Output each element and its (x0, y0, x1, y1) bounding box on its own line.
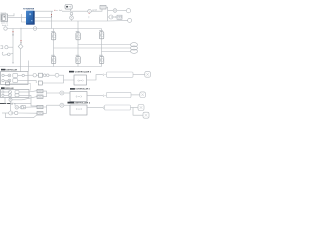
sensor T1 (circle on DC bus) (33, 27, 37, 31)
outlet O1 (circle top-right) (126, 9, 130, 13)
vertical riser x31 (30, 95, 32, 103)
switch S2 (left mid) (1, 46, 14, 49)
wire S5 to R1 (64, 92, 70, 94)
controller A row1 components (2, 73, 28, 77)
wire controller C out (87, 75, 103, 80)
vertical feeder C (x28.5) (28, 61, 30, 72)
filter FL2 (small box row2) (38, 81, 42, 85)
inverter module U1 (blue block) (26, 11, 35, 25)
wire U1 output top (AC line) (35, 10, 54, 12)
wire branch top to fuse F1 (108, 10, 114, 12)
heater H2 (long box row1) (107, 92, 132, 97)
svg-text:BMW CONTROLLER 1: BMW CONTROLLER 1 (70, 89, 91, 91)
motor tap W2 (54, 47, 131, 49)
label KM6 (99, 55, 103, 56)
meter M1 (terminal box) (100, 6, 106, 10)
wire J1 pin2 to U1 (8, 17, 27, 19)
return loop bottom (6, 113, 38, 118)
lamp L1 (circle on AC line) (88, 9, 92, 13)
label KM4 (51, 55, 55, 56)
svg-text:BMW CONTROLLER: BMW CONTROLLER (1, 69, 17, 71)
wire box B row2 to TB2 (29, 94, 31, 96)
vertical drop from AC line (51, 11, 53, 28)
indicator X3 (crossed square) (138, 105, 144, 111)
dark link bar (bottom-left) (0, 103, 11, 105)
red tick under L1 (89, 12, 90, 14)
svg-text:BMW CONTROLLER 2: BMW CONTROLLER 2 (68, 102, 91, 104)
vertical phase 3 (x101.5) (101, 29, 103, 67)
svg-text:PV INVERTER: PV INVERTER (23, 8, 34, 10)
svg-text:power unit: power unit (1, 21, 8, 24)
wire C0 to TB3 (23, 106, 37, 109)
label KM3 (99, 30, 103, 31)
wire controller A out (28, 74, 33, 76)
terminal block TB1 (37, 89, 43, 92)
gray mark on feeder A (12, 34, 14, 36)
wire breaker B2 out (19, 106, 21, 108)
motor M windings (three circles) (131, 43, 138, 54)
wire breaker B1 out (12, 97, 37, 100)
svg-text:(px): (px) (78, 80, 85, 82)
wire U1 mid output (35, 17, 52, 19)
heater H1 (long box mid-right) (107, 72, 134, 77)
contactor KM5 (relay box row2) (76, 57, 80, 64)
wire branch down to X4 (133, 108, 143, 116)
filter FL1 (small box) (39, 73, 43, 77)
label controller R2 dark start (68, 102, 75, 104)
wire TB1 to sensor (43, 91, 60, 93)
wire TB3 merge (43, 105, 47, 107)
bus N (neutral) from U1 (35, 20, 108, 22)
red mark on drop (51, 14, 53, 15)
switch SW1 (small box) (117, 15, 122, 19)
valve V2 (circle after controller A) (33, 74, 36, 77)
outlet O2 (circle right) (128, 18, 132, 22)
wire box B row1 to TB1 (29, 91, 37, 92)
label controller B dark start (1, 87, 5, 89)
wire to filter (36, 74, 38, 76)
motor tap W3 (102, 51, 131, 53)
terminal block TB2 (37, 95, 43, 98)
contact symbol below K1 (70, 12, 73, 15)
sensor S6 (circle before R2) (60, 103, 64, 107)
indicator X1 (crossed square) (145, 72, 151, 78)
vertical phase 1 (x53.5) (53, 29, 55, 67)
red mark on feeder A (12, 31, 14, 32)
contactor KM6 (relay box row2) (99, 57, 103, 64)
wire F1 to outlet O1 (117, 10, 127, 12)
connector J1 (input plug, top-left) (1, 14, 8, 22)
controller B row2 components (2, 94, 29, 97)
label KM5 (76, 55, 80, 56)
gray mark on drop (51, 16, 53, 17)
label controller A dark start (1, 69, 5, 71)
controller B row1 components (2, 91, 29, 94)
feeder B continues (20, 49, 22, 72)
contactor KM4 (relay box row2) (51, 57, 55, 64)
red tick on AC line (54, 9, 55, 11)
check valve D1 (diamond) (18, 44, 23, 49)
source G1 (circle left, battery) (4, 27, 7, 30)
wire R1 out (87, 95, 103, 97)
wire contact to valve (71, 14, 73, 17)
contactor KM3 (relay box row1) (99, 32, 103, 39)
gray mark on feeder B (20, 42, 22, 43)
sensor S4 (circle) (55, 73, 59, 77)
wire AC line to meter (91, 9, 102, 11)
controller B box (1, 90, 30, 98)
heater H3 (long box row2) (105, 105, 131, 110)
label KM2 (76, 31, 80, 32)
label controller C dark start (69, 71, 74, 73)
plug P2 (small connector above controller B) (6, 82, 31, 91)
wire H1 to lamp (133, 74, 145, 76)
svg-text:mod 1: mod 1 (1, 12, 7, 14)
wire into breaker B2 (14, 103, 16, 105)
wire J1 pin1 to node (8, 13, 15, 16)
wire to sensor (49, 74, 55, 76)
terminal block TB3 (37, 105, 43, 108)
sensor S5 (circle before R1) (60, 91, 64, 95)
wire C1 to C2 (13, 112, 15, 114)
controller C box (74, 75, 87, 85)
controller R1 box (70, 92, 87, 102)
wire to sensor S6 (47, 104, 60, 106)
ground rail (long horizontal) (0, 66, 102, 68)
label KM1 (51, 31, 55, 32)
breaker B2 (crossed circle) (15, 106, 19, 110)
relay K1 (rounded box top-middle) (65, 5, 72, 10)
controller A box (1, 72, 29, 85)
wire into C1 (2, 112, 9, 114)
wire TB4 merge (43, 107, 47, 113)
wire FL2 to joint (42, 80, 63, 83)
vertical feeder A (x13) (12, 29, 14, 63)
wire K1 down to AC line (70, 9, 72, 11)
breaker B1 (crossed circle below box) (9, 98, 12, 102)
wire H2 to lamp (131, 94, 140, 96)
arrowhead feeder A (12, 62, 14, 64)
contact C0 (circle right of B2) (20, 106, 23, 109)
junction tick on DC bus (20, 28, 22, 30)
wire DC bus horizontal (7, 28, 101, 30)
controller R2 box (70, 105, 87, 115)
wire L2 to switch box (113, 16, 117, 18)
wire stub B1 down to C1 (10, 101, 12, 111)
wire AC line continues (62, 10, 88, 12)
vertical phase 2 (x78) (77, 21, 79, 67)
label controller R1 dark start (70, 88, 75, 90)
terminal block TB4 (37, 112, 43, 115)
wire S6 to R2 (64, 104, 70, 106)
svg-text:BMW CONTROLLER 3: BMW CONTROLLER 3 (69, 71, 92, 73)
relay box RB1 (small box right of B2) (22, 105, 26, 108)
vertical feeder B (x21) (20, 29, 22, 45)
wire bend into controller C (59, 75, 74, 80)
lamp L2 (crossed circle mid branch) (108, 15, 113, 19)
wire vertical left bottom (4, 98, 6, 104)
bus N continues to outlet O2 (108, 20, 128, 22)
coupler tick row1 (103, 94, 106, 96)
contact pair CP1 (43, 74, 46, 77)
contact C2 (circle bottom row) (15, 111, 18, 114)
indicator X2 (crossed square) (140, 92, 146, 98)
controller A row2 components (2, 79, 28, 83)
coupler tick row0 (103, 73, 106, 75)
svg-text:batt 1: batt 1 (2, 24, 9, 27)
fuse F1 (small crossed circle) (113, 9, 117, 13)
tick below L1 (88, 16, 90, 18)
svg-text:ac link: ac link (56, 10, 63, 12)
indicator X4 (crossed square) (143, 112, 149, 118)
tick before SW1 (114, 16, 116, 18)
wire C2 to TB4 (18, 112, 37, 114)
wire vertical branch to U1 lower pin (22, 14, 27, 22)
contact pair CP2 (46, 74, 49, 77)
coupler tick row2 (103, 106, 104, 108)
contact C1 (circle bottom row) (9, 111, 13, 115)
wire meter to distribution node (106, 7, 108, 21)
wire H3 to lamp (131, 107, 138, 109)
wire controller A row2 out (28, 81, 36, 83)
solenoid S1 (crossed circle on bus) (70, 16, 74, 21)
sensor S3 (loop symbol left) (2, 52, 13, 55)
wire X-bar to TB3 (14, 103, 38, 106)
X junction on link bar (11, 103, 13, 105)
contactor KM1 (relay box row1) (51, 33, 55, 40)
wire TB2 merge (43, 93, 47, 97)
red mark on feeder B (20, 40, 22, 41)
wire R2 out (87, 107, 103, 109)
motor tap W1 (78, 44, 131, 46)
contactor KM2 (relay box row1) (76, 33, 80, 40)
